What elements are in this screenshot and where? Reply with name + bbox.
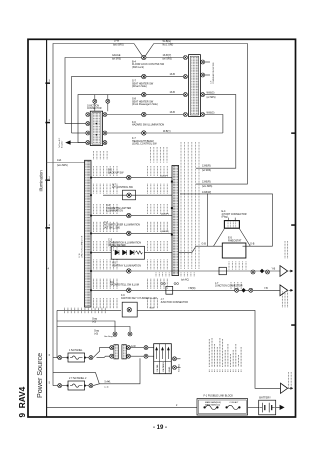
svg-text:Y-B: Y-B bbox=[272, 268, 276, 270]
svg-text:(+5): (+5) bbox=[92, 322, 96, 324]
svg-text:(4-BUP): (4-BUP) bbox=[161, 213, 169, 215]
svg-text:JUNCTION CONNECTOR: JUNCTION CONNECTOR bbox=[82, 235, 84, 258]
svg-text:MAIN MAIN(Y-b): MAIN MAIN(Y-b) bbox=[205, 403, 220, 406]
svg-text:(w/o SRS): (w/o SRS) bbox=[113, 45, 124, 47]
svg-text:O-B: O-B bbox=[250, 242, 255, 245]
svg-text:(w/ A/C): (w/ A/C) bbox=[181, 278, 189, 281]
svg-text:Gw-Gray-Gw: Gw-Gray-Gw bbox=[104, 336, 117, 338]
svg-text:Gray: Gray bbox=[94, 329, 100, 332]
svg-text:To Rear A/C: To Rear A/C bbox=[58, 137, 61, 148]
svg-text:W-B(G): W-B(G) bbox=[207, 112, 215, 114]
svg-text:(Plug): (Plug) bbox=[222, 217, 228, 219]
svg-text:(w/ SRS): (w/ SRS) bbox=[163, 58, 173, 60]
svg-text:4 PORT CONNECTOR: 4 PORT CONNECTOR bbox=[222, 213, 247, 216]
svg-text:HAZARD/TELL SW ILLUM: HAZARD/TELL SW ILLUM bbox=[110, 284, 139, 287]
svg-text:(w/o SRS): (w/o SRS) bbox=[202, 186, 213, 188]
svg-text:IGNITION KEY CYLINDER ILLUM: IGNITION KEY CYLINDER ILLUM bbox=[121, 298, 157, 300]
svg-text:W-B: W-B bbox=[150, 308, 155, 310]
svg-text:G-B: G-B bbox=[202, 242, 207, 245]
svg-text:W-B(G): W-B(G) bbox=[207, 92, 215, 94]
svg-text:SEAT HEATER SW: SEAT HEATER SW bbox=[132, 82, 154, 85]
svg-text:(w/ SRS): (w/ SRS) bbox=[112, 59, 121, 61]
svg-text:2 7.5A PANEL 2: 2 7.5A PANEL 2 bbox=[69, 377, 87, 380]
svg-text:SEAT HEATER SW: SEAT HEATER SW bbox=[132, 100, 154, 103]
svg-text:(A/T SHI.L.SW): (A/T SHI.L.SW) bbox=[104, 227, 120, 230]
svg-text:D-W: D-W bbox=[114, 38, 120, 42]
svg-text:Illumination: Illumination bbox=[38, 170, 43, 192]
svg-text:LEVEL CONTROL SW: LEVEL CONTROL SW bbox=[132, 143, 157, 146]
svg-text:13-B: 13-B bbox=[170, 72, 176, 76]
svg-text:BATTERY: BATTERY bbox=[259, 396, 271, 400]
svg-text:10A PANEL: 10A PANEL bbox=[162, 361, 165, 372]
svg-text:Gray: Gray bbox=[92, 318, 98, 321]
svg-text:JUNCTION CONNECTOR: JUNCTION CONNECTOR bbox=[215, 286, 243, 288]
svg-text:COM ALT: COM ALT bbox=[230, 401, 240, 404]
svg-text:ASHTRAY ILLUMINATION: ASHTRAY ILLUMINATION bbox=[112, 264, 141, 267]
svg-text:A/T SHIFT LEVER ILLUMINATION: A/T SHIFT LEVER ILLUMINATION bbox=[104, 224, 140, 227]
svg-text:(w/ SRS): (w/ SRS) bbox=[207, 97, 216, 99]
svg-text:13-B(W): 13-B(W) bbox=[202, 191, 211, 194]
svg-text:A/T CONTROL SW: A/T CONTROL SW bbox=[112, 186, 134, 189]
svg-text:COMBINATION METER: COMBINATION METER bbox=[212, 62, 215, 84]
svg-text:JUNCT ION: JUNCT ION bbox=[87, 105, 99, 107]
svg-text:W-B(G): W-B(G) bbox=[163, 39, 172, 43]
svg-text:F-9: F-9 bbox=[121, 294, 125, 297]
svg-text:GAUGE: GAUGE bbox=[112, 54, 121, 57]
svg-text:No.1 GRD: No.1 GRD bbox=[163, 45, 174, 47]
svg-text:Y-B: Y-B bbox=[264, 288, 268, 290]
svg-text:13-B(R): 13-B(R) bbox=[202, 180, 211, 183]
svg-text:(w/o SRS): (w/o SRS) bbox=[57, 165, 68, 167]
svg-text:BACK-UP SW: BACK-UP SW bbox=[108, 172, 124, 175]
svg-text:W-B(Y): W-B(Y) bbox=[163, 131, 171, 133]
svg-text:(+5): (+5) bbox=[94, 333, 98, 335]
svg-text:13-B(Y): 13-B(Y) bbox=[163, 53, 172, 57]
svg-text:(Shift Lock): (Shift Lock) bbox=[132, 66, 144, 69]
svg-text:13-B: 13-B bbox=[170, 110, 176, 114]
svg-text:- 19 -: - 19 - bbox=[153, 425, 167, 431]
svg-text:JUNCTION CONNECTOR: JUNCTION CONNECTOR bbox=[161, 302, 189, 304]
svg-text:(4-BUP): (4-BUP) bbox=[161, 231, 169, 233]
svg-text:RHEOSTAT: RHEOSTAT bbox=[228, 239, 242, 243]
svg-text:13-B: 13-B bbox=[170, 90, 176, 94]
svg-text:(Front Passenger's Side): (Front Passenger's Side) bbox=[132, 103, 158, 106]
svg-text:C-3: C-3 bbox=[108, 239, 113, 242]
svg-text:CONNECTOR: CONNECTOR bbox=[87, 108, 102, 110]
svg-text:Y-B(W): Y-B(W) bbox=[188, 288, 196, 290]
svg-text:5-A#1: 5-A#1 bbox=[105, 380, 112, 383]
svg-text:HEAD: HEAD bbox=[168, 366, 171, 372]
svg-text:(DOME, METER): (DOME, METER) bbox=[108, 245, 126, 247]
svg-text:Amplifier: Amplifier bbox=[60, 140, 63, 148]
svg-text:F-1 FUSIBLE LINK BLOCK: F-1 FUSIBLE LINK BLOCK bbox=[204, 394, 234, 397]
svg-text:COMBINATION ILLUMINATION: COMBINATION ILLUMINATION bbox=[108, 241, 141, 244]
svg-text:9 RAV4: 9 RAV4 bbox=[17, 386, 27, 417]
svg-text:Power Source: Power Source bbox=[35, 353, 44, 398]
svg-text:13-B(R): 13-B(R) bbox=[202, 164, 211, 167]
svg-text:14A: 14A bbox=[57, 159, 62, 162]
svg-text:HAZARD SW ILLUMINATION: HAZARD SW ILLUMINATION bbox=[132, 124, 164, 127]
svg-text:15A TAIL: 15A TAIL bbox=[156, 363, 159, 372]
svg-text:C-7: C-7 bbox=[104, 221, 109, 224]
svg-text:ILLUMINATION: ILLUMINATION bbox=[106, 210, 123, 213]
svg-text:(1-BUP): (1-BUP) bbox=[160, 175, 168, 177]
svg-text:(w/ SRS): (w/ SRS) bbox=[202, 170, 211, 172]
svg-text:(+1): (+1) bbox=[105, 387, 109, 389]
svg-text:FLOOR LOCK CON PNK SW: FLOOR LOCK CON PNK SW bbox=[132, 63, 165, 66]
svg-text:1 5A PANEL: 1 5A PANEL bbox=[69, 349, 83, 352]
svg-text:W-B TAIL: W-B TAIL bbox=[178, 364, 181, 372]
svg-text:(Driver's Side): (Driver's Side) bbox=[132, 85, 147, 88]
